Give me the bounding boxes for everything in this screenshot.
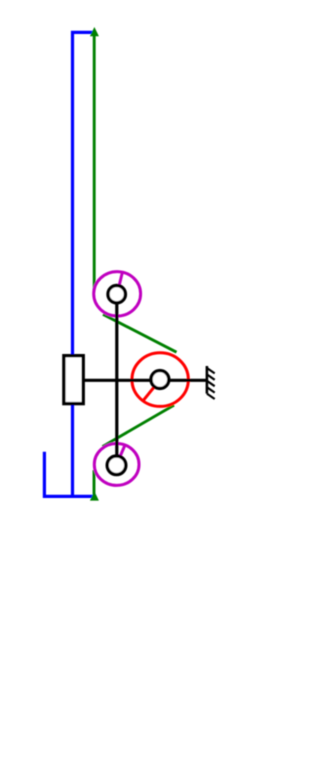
pulley P1 magenta circle (top) — [94, 272, 141, 316]
wire green rope segment 3 (diagonal P2 to P3) — [103, 405, 175, 447]
pulley P2 red circle — [132, 353, 188, 407]
ground hatch 3 — [207, 381, 215, 386]
wire magenta spoke of pulley P3 — [117, 445, 125, 464]
hub of pulley P3 — [107, 456, 126, 475]
ground hatch 2 — [207, 374, 215, 379]
ground hatch 5 — [207, 394, 215, 399]
ground wall vertical line — [206, 366, 209, 394]
wire green rope segment 4 (vertical to bottom marker) — [93, 470, 96, 497]
wire magenta spoke of pulley P1 — [117, 272, 122, 294]
slider block rectangle — [64, 356, 83, 404]
wire black vertical link P1-P3 — [115, 294, 118, 465]
hub of pulley P1 — [108, 286, 125, 303]
wire green rope segment 1 (vertical, top arrow to pulley P1) — [93, 30, 96, 290]
wire blue bracket: left vertical and bottom horizontal — [44, 452, 96, 497]
wire red spoke of pulley P2 — [143, 380, 161, 402]
wire blue link: top horizontal and long vertical — [73, 32, 96, 496]
ground hatch 1 — [207, 368, 215, 373]
wire black horizontal link (slider to wall pivot) — [74, 379, 208, 382]
wire green rope segment 2 (diagonal P1 to P2) — [103, 314, 177, 352]
pulley P3 magenta circle (bottom) — [94, 444, 139, 486]
ground hatch 4 — [207, 387, 215, 392]
hub of pulley P2 — [151, 371, 169, 389]
node green triangle marker (rope end, bottom) — [90, 491, 99, 500]
node green triangle marker (rope end, top) — [90, 27, 99, 36]
